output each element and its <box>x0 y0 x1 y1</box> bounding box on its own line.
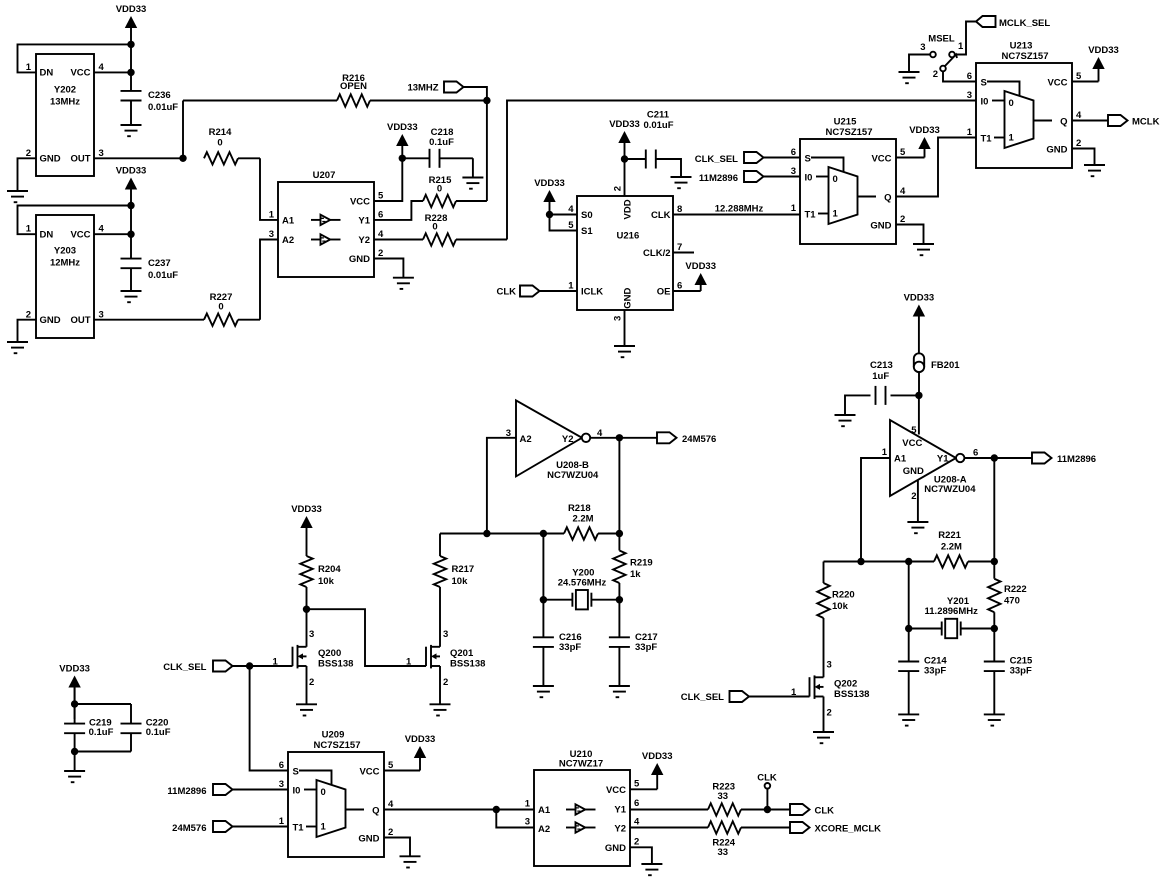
svg-text:OUT: OUT <box>70 315 90 326</box>
power VDD33 above U207 <box>387 122 418 158</box>
power VDD33 above C219/C220 <box>59 664 90 720</box>
oscillator Y202 13MHz <box>26 54 105 176</box>
ground below C217 <box>609 686 630 697</box>
svg-text:A2: A2 <box>282 235 294 246</box>
ground below U210 <box>641 864 662 875</box>
svg-text:6: 6 <box>378 210 383 221</box>
svg-text:3: 3 <box>279 779 284 790</box>
svg-text:3: 3 <box>443 629 448 640</box>
svg-text:NC7SZ157: NC7SZ157 <box>1002 51 1049 62</box>
capacitor C237 0.01uF <box>121 258 179 291</box>
svg-text:S: S <box>293 767 299 778</box>
ground below U216 <box>614 346 635 357</box>
wire U213 Q to MCLK flag <box>1072 120 1109 122</box>
svg-text:2: 2 <box>933 69 938 80</box>
svg-text:4: 4 <box>900 186 906 197</box>
svg-text:CLK_SEL: CLK_SEL <box>695 154 738 165</box>
svg-text:4: 4 <box>378 229 384 240</box>
svg-text:Y202: Y202 <box>54 85 76 96</box>
node C219 top junction <box>71 700 131 707</box>
svg-text:Q: Q <box>372 806 379 817</box>
ground left of C213 <box>835 415 856 426</box>
resistor R223 33 <box>708 782 790 816</box>
svg-text:0: 0 <box>432 222 437 233</box>
svg-text:Q201: Q201 <box>450 648 474 659</box>
wire S0 <box>550 214 578 216</box>
wire Y202 DN to VDD rail <box>18 44 132 72</box>
svg-text:10k: 10k <box>318 576 335 587</box>
svg-text:6: 6 <box>677 281 682 292</box>
node Q200 drain junction <box>303 606 310 613</box>
svg-text:5: 5 <box>634 779 640 790</box>
svg-text:GND: GND <box>870 221 891 232</box>
capacitor C218 0.1uF <box>402 127 473 178</box>
wire crystal left branch <box>542 534 544 600</box>
wire 13MHz up to R216 rail <box>182 101 184 159</box>
svg-text:5: 5 <box>900 147 906 158</box>
flag CLK_SEL input to Q202 <box>681 691 810 703</box>
svg-text:CLK: CLK <box>651 210 671 221</box>
svg-text:CLK: CLK <box>815 806 835 817</box>
wire U209 GND <box>384 838 410 857</box>
node CLK_SEL junction <box>246 662 253 669</box>
power VDD33 above U216 VDD <box>609 119 640 196</box>
capacitor C211 0.01uF <box>625 110 682 178</box>
svg-text:13MHZ: 13MHZ <box>407 83 438 94</box>
svg-text:A1: A1 <box>538 805 551 816</box>
op-amp U207 buffer (NC7WZ16) <box>269 170 384 277</box>
svg-text:VDD33: VDD33 <box>685 261 716 272</box>
wire U210 Y1 to R223 <box>630 809 708 811</box>
ground below MSEL pin3 <box>899 72 920 83</box>
wire output down to R222 <box>993 458 995 562</box>
svg-text:A2: A2 <box>520 434 532 445</box>
capacitor C215 33pF <box>984 629 1033 715</box>
node CLK testpoint <box>757 773 777 814</box>
svg-text:NC7SZ157: NC7SZ157 <box>826 127 873 138</box>
svg-text:VDD33: VDD33 <box>609 119 640 130</box>
svg-text:VCC: VCC <box>871 154 891 165</box>
node S0 junction <box>546 211 553 218</box>
wire U207 GND <box>374 259 403 278</box>
svg-text:VDD33: VDD33 <box>642 751 673 762</box>
svg-text:6: 6 <box>967 71 972 82</box>
svg-text:GND: GND <box>349 254 370 265</box>
svg-text:C213: C213 <box>870 360 893 371</box>
resistor R217 10k <box>434 556 474 587</box>
svg-text:OE: OE <box>657 287 671 298</box>
svg-text:1: 1 <box>791 203 797 214</box>
svg-text:1uF: 1uF <box>872 371 889 382</box>
svg-text:1: 1 <box>273 656 279 667</box>
ground below C216 <box>533 686 554 697</box>
svg-text:0: 0 <box>321 787 326 798</box>
switch MSEL <box>920 34 964 81</box>
svg-text:1: 1 <box>967 127 973 138</box>
svg-text:Q200: Q200 <box>318 648 341 659</box>
svg-text:1: 1 <box>269 210 275 221</box>
node U208-B output junction <box>616 434 623 441</box>
svg-text:24M576: 24M576 <box>172 823 206 834</box>
svg-text:1: 1 <box>568 281 574 292</box>
wire S1 <box>550 215 578 231</box>
svg-text:0: 0 <box>833 174 838 185</box>
resistor R216 OPEN <box>183 73 487 107</box>
ground below U213 <box>1084 165 1105 176</box>
svg-text:0: 0 <box>437 184 442 195</box>
svg-text:VDD33: VDD33 <box>116 4 147 15</box>
svg-text:5: 5 <box>911 425 917 436</box>
svg-text:NC7WZU04: NC7WZU04 <box>924 484 976 495</box>
svg-text:12MHz: 12MHz <box>50 258 80 269</box>
node Y202 VCC junction <box>127 69 134 76</box>
svg-text:Y203: Y203 <box>54 246 76 257</box>
wire R227 to U207 A2 <box>260 240 278 320</box>
svg-text:1: 1 <box>833 209 839 220</box>
svg-text:VCC: VCC <box>359 767 379 778</box>
power VDD33 above R204 <box>291 504 322 556</box>
svg-text:Q: Q <box>1060 117 1067 128</box>
svg-text:1: 1 <box>279 816 285 827</box>
wire Y203 OUT <box>94 319 204 321</box>
svg-text:6: 6 <box>279 760 284 771</box>
svg-text:1: 1 <box>958 41 964 52</box>
capacitor C216 33pF <box>533 600 582 686</box>
svg-text:0.01uF: 0.01uF <box>643 120 673 131</box>
svg-text:Q: Q <box>884 193 891 204</box>
wire U208-A output <box>964 457 1032 459</box>
svg-text:XCORE_MCLK: XCORE_MCLK <box>815 824 882 835</box>
svg-text:BSS138: BSS138 <box>318 659 353 670</box>
svg-text:A1: A1 <box>894 454 907 465</box>
wire CLK/2 stub <box>673 252 694 254</box>
node U208-A output junction <box>991 454 998 461</box>
svg-text:R217: R217 <box>452 564 475 575</box>
svg-text:4: 4 <box>99 62 105 73</box>
svg-text:33: 33 <box>718 791 729 802</box>
capacitor C217 33pF <box>609 600 658 686</box>
ground below U215 <box>913 244 934 255</box>
svg-text:NC7SZ157: NC7SZ157 <box>314 740 361 751</box>
svg-text:VDD33: VDD33 <box>904 293 935 304</box>
svg-text:VCC: VCC <box>70 68 90 79</box>
wire Y202 GND pin <box>18 158 37 191</box>
wire U210 Y2 to R224 <box>630 827 708 829</box>
svg-text:10k: 10k <box>832 601 849 612</box>
svg-text:8: 8 <box>677 204 682 215</box>
node rail dots <box>483 530 623 537</box>
wire MSEL pin1 to MCLK_SEL flag <box>955 22 976 55</box>
svg-text:GND: GND <box>40 154 61 165</box>
svg-text:VCC: VCC <box>350 197 370 208</box>
svg-text:1: 1 <box>882 447 888 458</box>
svg-text:GND: GND <box>1046 145 1067 156</box>
capacitor C220 0.1uF <box>121 704 171 752</box>
svg-text:R222: R222 <box>1004 584 1027 595</box>
flag 11M2896 input to U209 <box>167 784 288 797</box>
ground below Q200 <box>296 704 317 715</box>
svg-text:2: 2 <box>911 491 916 502</box>
svg-text:VDD33: VDD33 <box>291 504 322 515</box>
wire Y203 DN to VDD rail <box>18 206 132 235</box>
svg-text:I0: I0 <box>293 786 301 797</box>
resistor R228 0 <box>374 213 507 246</box>
svg-text:U213: U213 <box>1010 41 1033 52</box>
svg-text:24.576MHz: 24.576MHz <box>558 577 607 588</box>
svg-text:12.288MHz: 12.288MHz <box>715 204 764 215</box>
op-amp U209 (NC7SZ157 mux) <box>279 730 394 858</box>
svg-text:GND: GND <box>358 834 379 845</box>
flag CLK output <box>790 804 834 817</box>
svg-text:OPEN: OPEN <box>340 81 367 92</box>
svg-text:4: 4 <box>568 204 574 215</box>
wire U208-A input A1 <box>861 458 890 562</box>
wire U209 Q to U210 inputs <box>384 806 534 828</box>
svg-text:MSEL: MSEL <box>928 34 955 45</box>
transistor Q200 BSS138 <box>273 629 354 704</box>
svg-text:33: 33 <box>718 847 729 858</box>
svg-text:11M2896: 11M2896 <box>699 173 738 184</box>
svg-text:6: 6 <box>791 147 796 158</box>
svg-text:VDD33: VDD33 <box>534 178 565 189</box>
svg-text:Y2: Y2 <box>358 235 370 246</box>
svg-text:BSS138: BSS138 <box>450 659 485 670</box>
svg-text:VCC: VCC <box>1047 78 1067 89</box>
flag 11M2896 to U215 I0 <box>699 171 800 184</box>
op-amp U210 buffer NC7WZ17 <box>525 749 640 866</box>
svg-text:5: 5 <box>1076 71 1082 82</box>
svg-text:VDD33: VDD33 <box>405 734 436 745</box>
svg-text:1: 1 <box>525 799 531 810</box>
svg-text:VCC: VCC <box>902 438 922 449</box>
svg-text:33pF: 33pF <box>559 642 581 653</box>
svg-text:A2: A2 <box>538 824 550 835</box>
svg-text:GND: GND <box>623 288 634 309</box>
resistor R224 33 <box>708 821 790 858</box>
svg-text:DN: DN <box>40 68 54 79</box>
svg-text:S1: S1 <box>581 226 593 237</box>
ground below C214 <box>898 714 919 725</box>
wire Y202 OUT <box>94 157 183 159</box>
svg-text:GND: GND <box>903 466 924 477</box>
ground below Y203 <box>7 342 28 353</box>
svg-text:CLK_SEL: CLK_SEL <box>681 692 724 703</box>
svg-text:VCC: VCC <box>70 230 90 241</box>
svg-text:1: 1 <box>791 687 797 698</box>
svg-text:BSS138: BSS138 <box>834 689 869 700</box>
svg-text:24M576: 24M576 <box>682 434 716 445</box>
svg-text:VDD: VDD <box>623 199 634 219</box>
flag 11M2896 output <box>1032 453 1096 466</box>
svg-text:CLK_SEL: CLK_SEL <box>163 662 206 673</box>
flag 24M576 input to U209 <box>172 821 288 834</box>
node 13MHz OUT junction <box>179 155 186 162</box>
node Y203 VCC junction <box>127 231 134 238</box>
svg-text:U215: U215 <box>834 117 857 128</box>
svg-text:3: 3 <box>920 42 925 53</box>
svg-text:2: 2 <box>1076 138 1081 149</box>
svg-text:470: 470 <box>1004 596 1020 607</box>
svg-text:C237: C237 <box>148 258 171 269</box>
wire U213 VCC to VDD33 <box>1072 45 1119 82</box>
wire U216 GND stem <box>624 310 626 346</box>
ground below Q201 <box>430 704 451 715</box>
flag CLK_SEL to U215 S <box>695 152 800 165</box>
svg-text:2: 2 <box>378 248 383 259</box>
svg-text:CLK/2: CLK/2 <box>643 248 670 259</box>
svg-text:U207: U207 <box>313 170 336 181</box>
flag MCLK output <box>1108 115 1160 128</box>
svg-text:0.01uF: 0.01uF <box>148 102 178 113</box>
wire MSEL pin3 to ground <box>909 55 930 73</box>
svg-text:R220: R220 <box>832 590 855 601</box>
power VDD33 above U216 S0 <box>534 178 565 215</box>
svg-text:Q202: Q202 <box>834 679 857 690</box>
node U207 VCC junction <box>399 155 406 162</box>
svg-text:2.2M: 2.2M <box>941 542 962 553</box>
svg-text:1k: 1k <box>630 569 641 580</box>
op-amp U215 (NC7SZ157 mux) <box>791 117 906 245</box>
svg-text:C236: C236 <box>148 90 171 101</box>
svg-text:S: S <box>981 78 987 89</box>
svg-text:U209: U209 <box>322 730 345 741</box>
ground below C236 <box>121 125 142 136</box>
ground right of C218 <box>462 178 483 189</box>
crystal Y200 24.576MHz <box>540 567 623 609</box>
svg-text:3: 3 <box>791 166 796 177</box>
wire R216 junction down to R215 <box>486 101 488 202</box>
svg-text:Y2: Y2 <box>562 434 574 445</box>
resistor R221 2.2M <box>934 530 968 568</box>
svg-text:Y2: Y2 <box>614 824 626 835</box>
wire U208-B output <box>590 437 657 439</box>
wire R228 up to top rail (12MHz buffered) <box>507 101 976 240</box>
ground below C237 <box>121 291 142 302</box>
svg-text:Y1: Y1 <box>614 805 626 816</box>
svg-text:4: 4 <box>634 817 640 828</box>
wire U210 GND <box>630 847 652 864</box>
svg-text:5: 5 <box>568 220 574 231</box>
capacitor C214 33pF <box>898 629 947 715</box>
svg-text:11M2896: 11M2896 <box>167 786 206 797</box>
svg-text:2: 2 <box>634 837 639 848</box>
ground below U208-A <box>907 522 928 533</box>
svg-text:VDD33: VDD33 <box>59 664 90 675</box>
wire feedback rail Y201 <box>824 561 995 563</box>
svg-text:33pF: 33pF <box>1010 666 1032 677</box>
svg-text:2: 2 <box>900 214 905 225</box>
wire Y203 VCC <box>94 233 131 235</box>
power VDD33 above Y202 <box>116 4 147 91</box>
ferrite bead FB201 <box>914 353 960 395</box>
svg-text:FB201: FB201 <box>931 360 960 371</box>
ground below Q202 <box>813 732 834 743</box>
svg-text:0: 0 <box>1009 98 1014 109</box>
svg-text:0: 0 <box>218 302 223 313</box>
svg-text:DN: DN <box>40 230 54 241</box>
node CLK input flag <box>496 286 577 298</box>
svg-text:6: 6 <box>973 448 978 459</box>
svg-text:6: 6 <box>634 798 639 809</box>
op-amp U208-B inverter <box>506 400 603 481</box>
svg-text:VDD33: VDD33 <box>1088 45 1119 56</box>
svg-text:2: 2 <box>443 677 448 688</box>
op-amp U208-A inverter <box>882 420 979 502</box>
svg-text:1: 1 <box>321 822 327 833</box>
svg-text:MCLK: MCLK <box>1132 117 1160 128</box>
svg-text:Y1: Y1 <box>358 216 370 227</box>
svg-text:Y1: Y1 <box>937 454 949 465</box>
svg-text:R218: R218 <box>568 503 591 514</box>
svg-text:1: 1 <box>26 224 32 235</box>
svg-text:2: 2 <box>388 827 393 838</box>
svg-text:CLK: CLK <box>757 773 777 784</box>
ground below U207 <box>393 278 414 289</box>
wire U208-B input from feedback <box>487 438 516 534</box>
node Y202 VDD junction <box>127 41 134 48</box>
svg-text:13MHz: 13MHz <box>50 97 80 108</box>
svg-text:33pF: 33pF <box>635 642 657 653</box>
flag MCLK_SEL <box>976 16 1050 29</box>
svg-text:4: 4 <box>99 224 105 235</box>
svg-text:2.2M: 2.2M <box>572 514 593 525</box>
resistor R220 10k <box>817 562 854 678</box>
svg-text:1: 1 <box>406 656 412 667</box>
svg-text:VDD33: VDD33 <box>387 122 418 133</box>
flag XCORE_MCLK output <box>790 822 881 835</box>
node U216 VDD junction <box>621 155 628 162</box>
svg-text:S: S <box>805 154 811 165</box>
svg-text:MCLK_SEL: MCLK_SEL <box>999 18 1050 29</box>
svg-text:3: 3 <box>827 660 832 671</box>
wire CLK_SEL down to U209 S <box>250 666 288 771</box>
svg-text:2: 2 <box>612 186 623 191</box>
svg-text:5: 5 <box>378 191 384 202</box>
wire U207 VCC <box>374 158 402 201</box>
resistor R218 2.2M <box>564 503 598 540</box>
oscillator Y203 12MHz <box>26 215 105 338</box>
resistor R214 0 <box>204 127 260 165</box>
capacitor C236 0.01uF <box>121 90 179 125</box>
wire MSEL pin2 to U213 S <box>943 71 976 81</box>
wire U216 CLK out / 12.288MHz to U215 T1 <box>673 204 800 215</box>
svg-text:3: 3 <box>612 316 623 321</box>
resistor R219 1k <box>613 534 653 600</box>
capacitor C219 0.1uF <box>64 688 114 739</box>
svg-text:1: 1 <box>26 62 32 73</box>
flag CLK_SEL input left <box>163 661 292 674</box>
svg-text:2: 2 <box>827 708 832 719</box>
flag 24M576 output <box>657 432 716 445</box>
svg-text:S0: S0 <box>581 210 593 221</box>
svg-text:U216: U216 <box>617 230 640 241</box>
svg-text:0: 0 <box>217 138 222 149</box>
wire output down to R218 <box>618 438 620 534</box>
svg-text:R204: R204 <box>318 564 341 575</box>
ground below C219 <box>64 771 85 782</box>
resistor R222 470 <box>988 562 1027 629</box>
node Y203 VDD junction <box>127 202 134 209</box>
svg-text:CLK: CLK <box>496 287 516 298</box>
svg-text:C211: C211 <box>647 110 670 121</box>
svg-text:VDD33: VDD33 <box>909 125 940 136</box>
transistor Q202 BSS138 <box>791 660 869 733</box>
svg-text:11.2896MHz: 11.2896MHz <box>925 606 979 617</box>
resistor R227 0 <box>204 292 260 326</box>
svg-text:3: 3 <box>269 229 274 240</box>
transistor Q201 BSS138 <box>406 587 485 704</box>
svg-text:R219: R219 <box>630 558 653 569</box>
